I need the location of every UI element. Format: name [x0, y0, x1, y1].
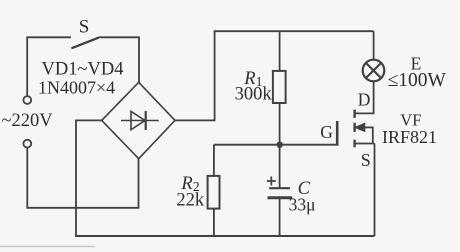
svg-text:S: S	[79, 17, 90, 38]
wire: lamp bottom to drain stub	[355, 82, 374, 114]
wire: source down to bottom bus	[374, 144, 376, 237]
label + polarity	[267, 177, 276, 186]
bridge rectifier VD1~VD4 (diamond)	[102, 82, 175, 158]
wire: switch to bridge top vertex (AC1)	[99, 37, 139, 83]
switch S arm	[71, 38, 98, 49]
terminal lower (~220V)	[23, 140, 31, 148]
wire: bridge left vertex (DC-) down to bottom bus	[76, 120, 102, 236]
label R2	[180, 174, 199, 194]
lamp E	[363, 60, 385, 82]
wire: lower terminal to bridge bottom vertex (AC2)	[27, 148, 138, 208]
svg-text:D: D	[358, 89, 371, 109]
diode symbol inside bridge	[121, 111, 159, 130]
capacitor C (electrolytic)	[268, 145, 293, 236]
node: gate/R1/R2/C junction	[277, 142, 283, 148]
wire: bridge right vertex (DC+) up to top bus	[175, 31, 215, 120]
wire: bottom bus (negative rail)	[75, 235, 374, 237]
svg-text:1N4007×4: 1N4007×4	[38, 78, 115, 98]
wire: upper AC terminal up to switch	[27, 37, 71, 96]
svg-text:S: S	[361, 150, 371, 170]
wire: lamp riser	[373, 31, 375, 60]
wire: gate lead	[214, 144, 339, 146]
transistor VF IRF821 (N-MOSFET)	[337, 110, 374, 148]
svg-text:33μ: 33μ	[289, 195, 316, 215]
label R1	[243, 69, 262, 89]
resistor R2	[208, 145, 220, 236]
resistor R1	[273, 31, 286, 145]
wire: top bus (positive rail)	[214, 30, 374, 32]
svg-text:IRF821: IRF821	[382, 127, 437, 147]
svg-text:22k: 22k	[176, 191, 205, 211]
svg-text:VD1~VD4: VD1~VD4	[42, 59, 124, 79]
svg-text:≤100W: ≤100W	[388, 70, 447, 91]
svg-text:G: G	[320, 122, 333, 142]
svg-text:300k: 300k	[235, 85, 273, 105]
svg-text:~220V: ~220V	[2, 111, 54, 131]
terminal upper (~220V)	[23, 96, 31, 104]
